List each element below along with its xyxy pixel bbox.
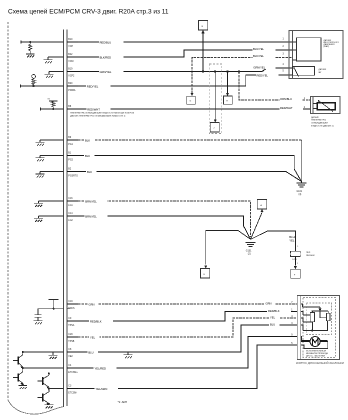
motor M lead left [301,340,310,342]
pin B8 stub [67,106,72,109]
motor jog pin9 [300,337,303,342]
svg-text:C3: C3 [68,386,72,388]
sensor U1 pin numbers [283,39,285,73]
junction dot 239 [238,70,240,72]
splice branch to box E [206,231,251,265]
svg-text:1: 1 [283,39,285,41]
internal stub row3 [49,72,64,75]
TP pin jogs [301,304,303,331]
svg-text:BLU: BLU [270,322,275,326]
svg-text:1: 1 [297,263,299,265]
note text under ECT wire [70,111,134,117]
svg-text:ТЕМПЕРАТУРА ОХЛАЖДАЮЩЕЙ ЖИДКОС: ТЕМПЕРАТУРА ОХЛАЖДАЮЩЕЙ ЖИДКОСТИ НА ВХОД… [70,111,134,114]
ground Q2 [18,383,27,389]
motor jog pin5 [301,344,304,347]
node Q1 emitter row 368 [22,367,64,369]
thermistor IAT box [293,66,315,76]
svg-text:G: G [190,101,192,103]
wire YEL/GRN [78,345,297,391]
sensor U1 inner element box [297,38,322,61]
svg-text:МЕХАНИЗМ ПРИВОДА: МЕХАНИЗМ ПРИВОДА [306,352,328,355]
svg-text:GRN: GRN [89,302,95,306]
box F [291,269,301,278]
wire YEL/RED [78,337,297,371]
arrow into box A [260,209,263,212]
internal ground stub y155.5 [36,156,64,162]
svg-text:B2: B2 [68,169,72,171]
svg-text:GRN/YEL: GRN/YEL [100,70,112,74]
pin C16 stub [67,198,78,207]
svg-text:YEL/RED: YEL/RED [95,366,107,370]
svg-text:ДРОСС. ЗАСЛОНКИ: ДРОСС. ЗАСЛОНКИ [306,355,326,358]
svg-text:B: B [202,26,204,28]
svg-text:BLK: BLK [87,170,92,174]
svg-text:Схема цепей ECM/PCM CRV-3 двиг: Схема цепей ECM/PCM CRV-3 двиг. R20A стр… [8,8,169,16]
TP top rail [312,311,329,313]
junction dot 227 [226,70,228,72]
TP line B [303,314,310,316]
splice branch BLU/YEL [251,231,296,251]
capacitor internal TDC [35,309,42,321]
svg-text:GRN/YEL: GRN/YEL [253,65,265,69]
junction dot 215 [214,70,216,72]
svg-text:ПЕР.: ПЕР. [306,252,311,254]
svg-text:PGSRTG: PGSRTG [68,175,78,177]
svg-text:B10: B10 [68,39,73,41]
svg-text:(ДАТЧИК ТЕМПЕРАТУРЫ ОХЛАЖДАЮЩЕ: (ДАТЧИК ТЕМПЕРАТУРЫ ОХЛАЖДАЮЩЕЙ ЖИДКОСТИ… [70,114,126,117]
option dash-dot boundary [209,64,221,134]
svg-text:BRN/YEL: BRN/YEL [85,199,97,203]
svg-text:4: 4 [283,64,285,66]
svg-text:PG1: PG1 [68,144,73,146]
svg-text:B20: B20 [68,83,73,85]
svg-text:ORN/BLU: ORN/BLU [280,97,292,101]
svg-text:5: 5 [283,71,285,73]
transistor Q2 [13,368,23,385]
svg-text:BLK: BLK [85,138,90,142]
thermistor IAT text [319,68,328,74]
sensor U1 outer box [289,31,343,79]
svg-text:КОРПУС ДРОССЕЛЬНОЙ ЗАСЛОНКИ: КОРПУС ДРОССЕЛЬНОЙ ЗАСЛОНКИ [296,361,344,365]
svg-text:C4: C4 [68,365,72,367]
pin B20 stub [67,83,78,92]
svg-text:ЖИДКОСТИ (ДАТЧИК 1): ЖИДКОСТИ (ДАТЧИК 1) [311,124,334,127]
svg-text:B19: B19 [68,69,73,71]
internal ground stub y216 [34,216,64,222]
svg-text:4: 4 [291,316,293,318]
svg-text:B42: B42 [68,54,73,56]
svg-text:C416: C416 [292,259,298,261]
box B drop wire [202,33,204,73]
svg-text:VCP: VCP [68,46,73,48]
arrow into box J [214,120,217,123]
throttle body outer box [297,296,339,360]
internal ground stub y140 [36,140,64,146]
box B [199,21,208,30]
transistor Q1 [13,352,23,368]
splice branch to box A [251,213,262,240]
wire BLU [78,322,297,354]
svg-text:ТЕМПЕРАТУРЫ: ТЕМПЕРАТУРЫ [311,119,326,122]
svg-text:PG2: PG2 [68,159,73,161]
internal stub row2 [48,57,64,60]
arrow into box F [294,266,297,269]
sensor U1 stubs [293,42,297,60]
wire RED/YEL [78,73,293,88]
TP resistor right [326,313,330,321]
throttle body dashed box [303,298,336,358]
svg-text:BLU: BLU [88,350,93,354]
internal ECT pullup [41,99,64,111]
ground stub internal BLU row [49,352,58,359]
motor M circle [310,337,320,347]
svg-text:RED/BLK: RED/BLK [90,319,102,323]
svg-text:BRN/YEL: BRN/YEL [85,214,97,218]
arrow into box H [226,93,229,96]
svg-text:LG1: LG1 [68,205,73,207]
svg-text:C16: C16 [68,198,73,200]
svg-text:ДАТЧИК: ДАТЧИК [319,68,328,71]
svg-text:*1: АКП: *1: АКП [118,400,127,404]
pin C8 stub [67,349,78,358]
svg-text:ETCSM-: ETCSM- [68,392,77,394]
svg-text:5V: 5V [48,99,51,101]
ground internal row1 [26,53,35,58]
svg-text:C9: C9 [68,318,72,320]
svg-text:IAT: IAT [319,71,323,74]
wire BLK/RED [78,46,293,59]
internal wire row4 [21,85,64,88]
ECT thermistor element [313,100,335,111]
transistor Q3 [38,372,50,388]
ECM connector double line [63,30,65,408]
svg-text:YEL: YEL [270,315,276,319]
motor housing loop [304,341,328,349]
ground internal row2 [44,60,53,64]
pin B42 stub [67,54,78,63]
wire to box F [294,256,296,265]
pin C19 stub [67,301,78,310]
svg-text:VCM: VCM [68,61,73,63]
pin B9 stub [67,137,78,146]
svg-text:BLK/RED: BLK/RED [100,55,112,59]
svg-text:РАЗЪЕМ: РАЗЪЕМ [306,254,315,257]
svg-text:RED/WHT: RED/WHT [280,106,293,110]
svg-text:C19: C19 [68,301,73,303]
wire RED/BLK [78,308,297,323]
svg-text:C14: C14 [68,213,73,215]
wire YEL [78,315,297,339]
motor label text [306,349,328,357]
svg-text:ДАТЧИК: ДАТЧИК [311,116,320,119]
svg-text:J: J [213,128,214,130]
svg-text:VCP2: VCP2 [68,75,75,77]
wire BLK 1 [78,138,302,181]
node Q3 emitter row 388.5 [48,388,64,390]
ground internal TDC [34,321,43,325]
svg-text:RED/WHT: RED/WHT [87,107,100,111]
ECM/PCM dashed boundary [7,22,9,400]
node Q1 collector to BLU row [22,351,64,353]
pin C10 stub [67,308,70,310]
ground internal row3 [45,74,54,78]
wire ORN/BLU [239,72,310,101]
shield ground on BLU wire [124,352,133,358]
svg-text:YEL: YEL [289,238,295,242]
box H [223,96,232,104]
sensor U1 label text [324,39,340,48]
drop wire to box H [226,72,228,94]
ECT outer box [311,97,341,114]
transistor Q4 [38,389,49,405]
ECM torn bottom edge [8,400,64,414]
supply circle row4 [32,75,36,79]
svg-text:TPSB: TPSB [68,341,74,343]
svg-text:BLU/: BLU/ [289,235,295,239]
wire BLK 2 [78,153,301,181]
pin B19 stub [67,69,78,78]
arrow into box G1 [191,93,194,96]
svg-text:RED/YEL: RED/YEL [87,84,99,88]
pin C14 stub [67,213,78,222]
ground Q4 [45,403,54,409]
svg-text:BLU/YEL: BLU/YEL [253,47,265,51]
box A [257,200,267,209]
pin C29 stub [67,334,78,343]
svg-text:ИСПОЛНИТЕЛЬНЫЙ: ИСПОЛНИТЕЛЬНЫЙ [306,349,326,352]
pin B10 stub [67,39,78,48]
svg-text:ETCSM+: ETCSM+ [68,372,78,374]
throttle body connector double line [297,296,301,360]
wire BRN/YEL 1 [78,199,251,237]
svg-text:E: E [204,274,206,276]
svg-text:GRN: GRN [266,301,272,305]
pin C9 stub [67,318,78,327]
svg-text:B1: B1 [68,153,72,155]
svg-text:1: 1 [297,246,299,248]
internal ground stub y201 [34,201,64,207]
box G1 [187,96,195,104]
ECT label text [311,116,334,127]
svg-text:(4): (4) [299,194,302,196]
TP resistor left [310,313,314,322]
wire RED/WHT [70,105,311,111]
svg-text:G101: G101 [246,250,252,252]
throttle pin numbers [291,302,293,345]
svg-text:TPSA: TPSA [68,324,74,327]
ground G101 right [297,181,307,196]
internal ground stub y171.6 [36,172,64,178]
inline connector C pair [291,246,315,265]
svg-text:G101: G101 [297,191,303,193]
box E [201,269,210,278]
svg-text:XE2: XE2 [68,356,73,358]
drop wire to box J [214,72,216,120]
wire BLK 3 [78,169,301,181]
ECT connector double line [311,97,314,114]
svg-text:H: H [226,100,228,102]
svg-text:C29: C29 [68,334,73,336]
svg-text:A: A [260,204,262,207]
wire GRN/YEL [78,65,293,74]
arrow into box E [204,265,207,268]
TP line C [303,322,314,332]
svg-text:BLK/YEL: BLK/YEL [253,54,264,58]
svg-text:1: 1 [304,98,306,100]
junction dot row4 [33,85,35,87]
svg-text:BLK: BLK [85,154,90,158]
internal wire row1 [21,41,64,44]
TP sensor dashed box [306,303,331,335]
svg-text:C8: C8 [68,349,72,351]
transistor bars emphasis [18,357,43,402]
svg-text:YEL/GRN: YEL/GRN [96,387,108,391]
TP line D [303,321,328,331]
svg-text:PWMA: PWMA [68,89,76,92]
svg-text:F: F [294,274,296,276]
resistor R internal row1 [29,42,32,53]
internal TDC termination [38,300,64,310]
pin C3 stub [67,386,78,395]
arrow into box B [201,30,204,33]
pin B2 stub [67,169,78,178]
svg-text:LG2: LG2 [68,220,73,222]
junction dot row1 [29,41,31,43]
svg-text:YEL: YEL [90,335,96,339]
ground splice G101 [246,243,256,256]
svg-text:B8: B8 [68,106,72,108]
svg-text:ОХЛАЖДАЮЩЕЙ: ОХЛАЖДАЮЩЕЙ [311,122,328,125]
svg-text:B9: B9 [68,137,72,139]
wire RED/BLU [78,40,293,45]
svg-text:3: 3 [283,54,285,56]
svg-text:RED/YEL: RED/YEL [257,73,269,77]
svg-text:RED/BLK: RED/BLK [268,309,280,313]
TP wiper line [303,307,327,318]
svg-text:2: 2 [283,46,285,48]
svg-text:(MAP): (MAP) [324,45,330,48]
motor M lead right [320,340,328,342]
resistor internal row4 [32,78,35,86]
sensor U1 connector line [292,31,294,79]
wire BRN/YEL 2 [78,214,251,240]
box J [210,123,219,132]
svg-text:(2): (2) [248,253,251,255]
pin B1 stub [67,153,78,162]
ECT sensor pins [304,98,306,109]
svg-text:RED/BLU: RED/BLU [100,40,112,44]
pin C4 stub [67,365,78,374]
wire GRN [78,301,297,306]
wire BLK/YEL [192,54,293,94]
